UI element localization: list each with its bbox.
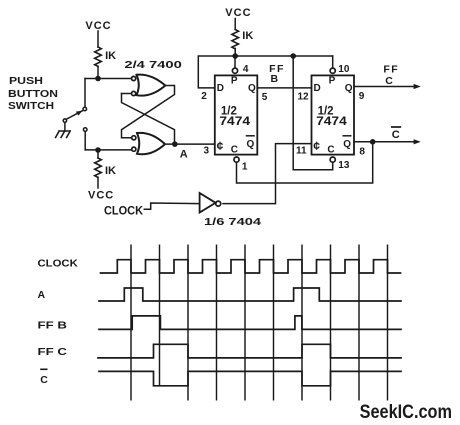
nand gate G2 (bottom, OR-shape with input bubbles) [137, 133, 165, 154]
wire R3 to rail [234, 48, 236, 56]
svg-text:FF: FF [383, 64, 399, 76]
wire G2 output to FF1 pin 3 [165, 143, 215, 145]
svg-text:5: 5 [262, 92, 268, 103]
pin 1 clear bubble FF1 [234, 157, 239, 162]
svg-text:P: P [329, 76, 336, 87]
grid line t3 [216, 245, 218, 401]
pin 13 clear bubble FF2 [330, 157, 335, 162]
svg-text:D: D [314, 83, 321, 94]
svg-text:CLOCK: CLOCK [104, 205, 144, 217]
svg-text:7474: 7474 [316, 116, 347, 128]
waveform FF C [98, 344, 401, 358]
svg-text:4: 4 [243, 64, 249, 75]
svg-text:Q: Q [248, 83, 256, 94]
arrowhead FF C output [414, 84, 421, 89]
svg-text:9: 9 [359, 91, 365, 102]
wire clear branch: rail to pin 13 [293, 56, 333, 170]
wire FF1 clear to Cbar junction [237, 142, 373, 183]
svg-text:FF C: FF C [38, 346, 68, 358]
svg-text:VCC: VCC [88, 190, 114, 202]
svg-text:12: 12 [298, 91, 310, 102]
svg-text:C: C [327, 144, 334, 155]
junction Cbar feedback [370, 139, 376, 145]
wire G1 output to G2 input 1 (cross-couple) [122, 86, 175, 138]
wire Cbar output (pin 8) [354, 141, 417, 143]
waveform CLOCK [101, 260, 401, 273]
wire CLOCK input [144, 203, 199, 209]
wire bottom contact down [84, 132, 86, 150]
svg-text:1: 1 [242, 161, 248, 172]
label PUSH BUTTON SWITCH [8, 75, 58, 112]
grid line t2 [187, 245, 189, 401]
switch bottom contact [83, 128, 87, 132]
wire pin 4 stem [234, 56, 236, 68]
switch arm arrowhead [76, 111, 83, 116]
wire FF C output (pin 9) [354, 86, 417, 88]
junction rail R3 [232, 53, 238, 59]
svg-text:¢: ¢ [313, 139, 320, 153]
svg-text:PUSH: PUSH [9, 75, 43, 87]
grid line t9 [387, 245, 389, 401]
wire Q1 to D2 [257, 87, 311, 89]
inverter U3 (1/6 7404) [200, 193, 216, 213]
svg-text:11: 11 [296, 145, 307, 156]
ground [56, 131, 71, 137]
svg-text:3: 3 [204, 146, 210, 157]
grid line t1 [159, 245, 161, 386]
overbar of Qbar (U1) [247, 135, 255, 137]
wire pivot to ground [64, 122, 66, 131]
svg-text:D: D [217, 83, 224, 94]
waveform FF B [99, 316, 401, 330]
flip-flop U1 (1/2 7474) box [215, 75, 257, 154]
grid line t8 [358, 245, 360, 401]
resistor R2 1K [95, 158, 102, 177]
svg-text:SeekIC.com: SeekIC.com [360, 401, 452, 423]
svg-text:¢: ¢ [217, 139, 224, 153]
waveform Cbar [99, 371, 401, 385]
svg-text:VCC: VCC [85, 20, 111, 32]
junction top pull-up node [95, 76, 101, 82]
wire node to G1 input 1 [85, 78, 132, 80]
wire pull-up rail [198, 56, 332, 88]
grid line t6 [301, 245, 303, 401]
svg-text:C: C [392, 129, 400, 141]
svg-text:8: 8 [359, 147, 365, 158]
svg-text:10: 10 [338, 64, 350, 75]
switch top contact [83, 107, 87, 111]
wire G1 input 2 stub [122, 93, 132, 95]
svg-text:VCC: VCC [225, 7, 251, 19]
grid line t4 [244, 245, 246, 401]
svg-text:7474: 7474 [219, 116, 250, 128]
svg-text:A: A [180, 148, 188, 160]
svg-text:FF B: FF B [38, 320, 68, 332]
flip-flop U2 (1/2 7474) box [312, 75, 355, 154]
svg-text:IK: IK [242, 30, 253, 42]
svg-text:Q: Q [247, 139, 255, 150]
svg-text:C: C [231, 144, 238, 155]
svg-text:C: C [385, 75, 393, 87]
svg-text:13: 13 [338, 160, 350, 171]
G1 input bubble 1 [132, 76, 136, 80]
nand gate G1 (top, OR-shape with input bubbles) [137, 75, 166, 96]
wire rail corner to pin 10 [332, 56, 334, 68]
node A junction dot [172, 141, 178, 147]
svg-text:IK: IK [105, 50, 116, 62]
wire R2 to VCC [97, 177, 99, 188]
svg-text:IK: IK [105, 165, 116, 177]
G2 input bubble 2 [132, 147, 136, 151]
svg-text:Q: Q [345, 83, 353, 94]
junction bottom pull-up node [95, 147, 101, 153]
wire node to R2 [97, 150, 99, 158]
wire R1 to node [97, 66, 99, 78]
wire down to switch top contact [84, 79, 86, 108]
svg-text:A: A [38, 289, 46, 301]
svg-text:BUTTON: BUTTON [8, 88, 58, 100]
svg-text:C: C [40, 374, 48, 386]
resistor R3 1K [232, 30, 239, 49]
svg-text:1/6 7404: 1/6 7404 [204, 216, 261, 228]
svg-text:Q: Q [343, 139, 351, 150]
switch pivot contact [63, 119, 66, 122]
svg-text:SWITCH: SWITCH [8, 100, 54, 112]
svg-text:CLOCK: CLOCK [38, 257, 79, 269]
wire VCC1 to R1 [97, 31, 99, 47]
junction rail clear-branch [290, 53, 296, 59]
wire VCC to R3 [234, 19, 236, 30]
grid line t5 [273, 245, 275, 401]
wire to G2 input 2 [85, 149, 132, 151]
wire FF2 pin 11 to inverter [223, 144, 312, 204]
svg-text:2: 2 [201, 91, 207, 102]
G1 input bubble 2 [132, 91, 136, 95]
waveform A [99, 288, 401, 301]
switch arm [66, 111, 82, 120]
svg-text:P: P [231, 76, 238, 87]
resistor R1 1K [95, 47, 102, 66]
pin 4 preset bubble FF1 [232, 68, 237, 73]
grid line t0 [130, 245, 132, 401]
svg-text:B: B [271, 73, 279, 85]
svg-text:2/4 7400: 2/4 7400 [124, 59, 182, 71]
G2 input bubble 1 [132, 136, 136, 140]
arrowhead Cbar output [414, 139, 421, 144]
overbar of Cbar output [392, 126, 401, 128]
pin 10 preset bubble FF2 [330, 68, 335, 73]
wire cross-couple: node A to G1 input 2 [122, 94, 175, 145]
grid line t7 [330, 245, 332, 401]
inverter output bubble [216, 201, 221, 206]
overbar of Qbar (U2) [343, 135, 351, 137]
